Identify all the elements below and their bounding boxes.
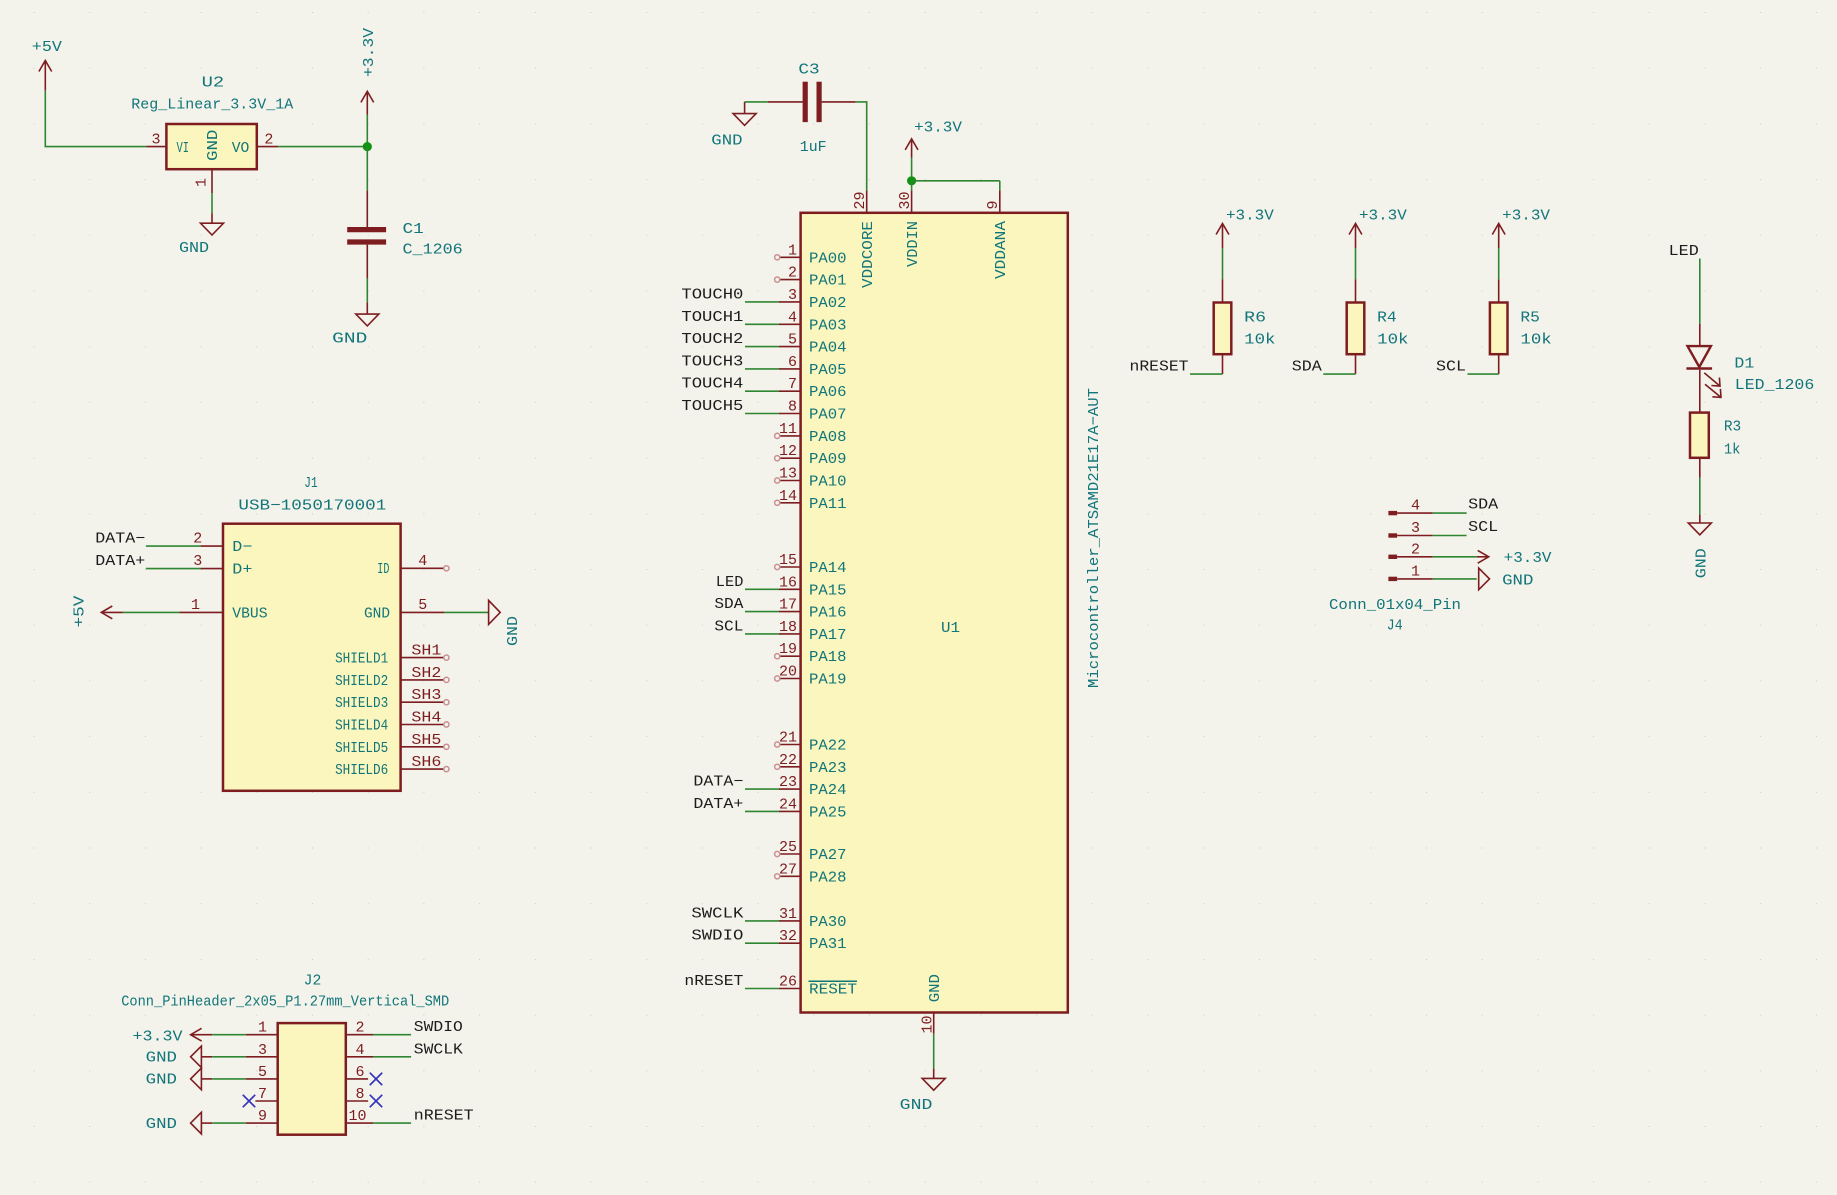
svg-text:SCL: SCL (714, 618, 743, 635)
svg-text:SH4: SH4 (411, 710, 441, 727)
svg-text:10k: 10k (1377, 331, 1408, 348)
svg-text:PA18: PA18 (809, 649, 847, 666)
svg-text:VDDCORE: VDDCORE (860, 221, 877, 288)
svg-text:PA08: PA08 (809, 429, 847, 446)
svg-text:R4: R4 (1377, 310, 1397, 327)
svg-text:17: 17 (779, 597, 797, 614)
svg-text:VI: VI (177, 140, 190, 157)
svg-text:PA17: PA17 (809, 627, 847, 644)
svg-text:SWDIO: SWDIO (414, 1019, 463, 1036)
svg-text:SH5: SH5 (411, 732, 441, 749)
svg-text:DATA+: DATA+ (95, 553, 145, 570)
svg-text:+3.3V: +3.3V (1359, 208, 1407, 225)
svg-text:29: 29 (852, 191, 869, 209)
svg-text:SWCLK: SWCLK (414, 1041, 463, 1058)
svg-text:GND: GND (364, 605, 390, 622)
svg-text:VDDANA: VDDANA (993, 221, 1010, 279)
svg-text:14: 14 (779, 488, 797, 505)
svg-text:GND: GND (332, 330, 367, 347)
svg-text:TOUCH2: TOUCH2 (681, 331, 743, 348)
svg-text:+3.3V: +3.3V (1502, 208, 1550, 225)
svg-text:2: 2 (193, 531, 202, 548)
svg-text:VDDIN: VDDIN (905, 221, 922, 267)
svg-text:SH3: SH3 (411, 687, 441, 704)
svg-text:LED: LED (1669, 243, 1699, 260)
svg-text:nRESET: nRESET (414, 1108, 474, 1125)
svg-text:PA02: PA02 (809, 295, 847, 312)
svg-text:D−: D− (232, 539, 252, 556)
svg-text:R5: R5 (1520, 310, 1540, 327)
svg-text:GND: GND (900, 1097, 933, 1114)
svg-text:R6: R6 (1244, 310, 1266, 327)
svg-text:1: 1 (788, 242, 797, 259)
svg-text:8: 8 (788, 399, 797, 416)
svg-text:GND: GND (505, 616, 522, 646)
svg-text:7: 7 (788, 376, 797, 393)
svg-text:ID: ID (377, 561, 389, 578)
svg-text:VBUS: VBUS (232, 605, 267, 622)
svg-text:TOUCH3: TOUCH3 (681, 353, 743, 370)
svg-text:23: 23 (779, 774, 797, 791)
svg-text:GND: GND (1502, 572, 1533, 589)
svg-text:nRESET: nRESET (1130, 359, 1189, 376)
svg-text:PA07: PA07 (809, 407, 847, 424)
svg-text:10k: 10k (1520, 331, 1551, 348)
svg-text:TOUCH0: TOUCH0 (681, 286, 743, 303)
svg-text:4: 4 (788, 309, 797, 326)
svg-text:10: 10 (919, 1015, 936, 1033)
svg-text:PA19: PA19 (809, 672, 847, 689)
svg-text:SH1: SH1 (411, 643, 441, 660)
svg-text:SHIELD5: SHIELD5 (335, 740, 388, 757)
svg-text:PA06: PA06 (809, 384, 847, 401)
svg-text:PA23: PA23 (809, 760, 847, 777)
svg-text:LED: LED (716, 574, 744, 591)
svg-text:nRESET: nRESET (684, 973, 743, 990)
svg-text:13: 13 (779, 466, 797, 483)
svg-text:2: 2 (356, 1020, 365, 1037)
svg-text:1: 1 (191, 597, 200, 614)
svg-text:J1: J1 (304, 475, 317, 492)
svg-text:1: 1 (258, 1020, 267, 1037)
svg-text:Microcontroller_ATSAMD21E17A−A: Microcontroller_ATSAMD21E17A−AUT (1086, 388, 1103, 688)
svg-text:SHIELD3: SHIELD3 (335, 695, 388, 712)
svg-text:PA14: PA14 (809, 560, 847, 577)
svg-text:32: 32 (779, 928, 797, 945)
svg-text:PA24: PA24 (809, 782, 847, 799)
svg-text:GND: GND (146, 1050, 177, 1067)
svg-text:31: 31 (779, 906, 797, 923)
svg-text:TOUCH5: TOUCH5 (681, 398, 743, 415)
svg-text:PA27: PA27 (809, 847, 847, 864)
svg-text:1: 1 (1411, 563, 1420, 580)
svg-text:Conn_PinHeader_2x05_P1.27mm_Ve: Conn_PinHeader_2x05_P1.27mm_Vertical_SMD (121, 994, 449, 1011)
svg-text:4: 4 (1411, 498, 1420, 515)
svg-text:SWCLK: SWCLK (691, 905, 743, 922)
svg-text:U1: U1 (941, 620, 960, 637)
svg-text:11: 11 (779, 421, 797, 438)
svg-text:3: 3 (1411, 520, 1420, 537)
svg-text:7: 7 (258, 1086, 267, 1103)
svg-text:3: 3 (193, 553, 202, 570)
svg-text:GND: GND (146, 1072, 177, 1089)
svg-text:SCL: SCL (1468, 519, 1498, 536)
svg-text:2: 2 (264, 132, 273, 149)
svg-text:+5V: +5V (72, 596, 89, 628)
svg-text:+3.3V: +3.3V (361, 28, 378, 77)
svg-text:SDA: SDA (1468, 497, 1498, 514)
svg-text:18: 18 (779, 619, 797, 636)
svg-text:SDA: SDA (1292, 359, 1322, 376)
svg-text:GND: GND (179, 240, 209, 257)
svg-text:4: 4 (356, 1042, 365, 1059)
svg-text:R3: R3 (1724, 419, 1741, 436)
svg-text:3: 3 (258, 1042, 267, 1059)
svg-text:PA10: PA10 (809, 474, 847, 491)
svg-text:PA15: PA15 (809, 582, 847, 599)
svg-text:6: 6 (356, 1064, 365, 1081)
svg-text:DATA−: DATA− (693, 774, 743, 791)
svg-text:12: 12 (779, 443, 797, 460)
svg-text:GND: GND (146, 1116, 177, 1133)
svg-text:U2: U2 (202, 74, 225, 91)
svg-text:PA03: PA03 (809, 317, 847, 334)
svg-text:4: 4 (418, 553, 427, 570)
svg-text:PA25: PA25 (809, 804, 847, 821)
svg-text:RESET: RESET (809, 982, 857, 999)
svg-text:C1: C1 (403, 221, 424, 238)
svg-text:5: 5 (788, 332, 797, 349)
svg-text:+3.3V: +3.3V (1226, 208, 1274, 225)
svg-text:TOUCH1: TOUCH1 (681, 309, 743, 326)
svg-text:GND: GND (205, 130, 222, 161)
svg-text:3: 3 (151, 132, 160, 149)
svg-text:20: 20 (779, 664, 797, 681)
svg-text:PA11: PA11 (809, 496, 847, 513)
svg-text:SH6: SH6 (411, 754, 441, 771)
svg-text:C_1206: C_1206 (403, 241, 463, 258)
svg-text:LED_1206: LED_1206 (1735, 377, 1815, 394)
svg-text:24: 24 (779, 796, 797, 813)
svg-text:PA16: PA16 (809, 605, 847, 622)
svg-text:9: 9 (258, 1108, 267, 1125)
svg-text:3: 3 (788, 287, 797, 304)
svg-text:15: 15 (779, 552, 797, 569)
svg-text:9: 9 (985, 200, 1002, 209)
svg-text:Conn_01x04_Pin: Conn_01x04_Pin (1329, 597, 1461, 614)
svg-text:SWDIO: SWDIO (691, 928, 743, 945)
svg-text:+5V: +5V (32, 39, 62, 56)
svg-text:SHIELD2: SHIELD2 (335, 673, 388, 690)
svg-text:1: 1 (194, 178, 211, 187)
svg-text:SHIELD1: SHIELD1 (335, 651, 388, 668)
svg-text:TOUCH4: TOUCH4 (681, 376, 743, 393)
svg-text:J4: J4 (1387, 618, 1403, 635)
svg-text:2: 2 (1411, 541, 1420, 558)
svg-text:VO: VO (232, 140, 250, 157)
svg-text:SDA: SDA (714, 596, 743, 613)
svg-text:PA31: PA31 (809, 936, 847, 953)
svg-text:GND: GND (711, 133, 742, 150)
svg-text:1uF: 1uF (800, 139, 827, 156)
svg-text:DATA+: DATA+ (693, 796, 743, 813)
svg-text:5: 5 (258, 1064, 267, 1081)
svg-text:25: 25 (779, 839, 797, 856)
svg-text:2: 2 (788, 265, 797, 282)
svg-text:SHIELD6: SHIELD6 (335, 762, 388, 779)
svg-text:PA09: PA09 (809, 451, 847, 468)
svg-text:SH2: SH2 (411, 665, 441, 682)
svg-text:27: 27 (779, 861, 797, 878)
svg-text:6: 6 (788, 354, 797, 371)
svg-text:PA00: PA00 (809, 250, 847, 267)
svg-text:PA01: PA01 (809, 273, 847, 290)
svg-text:21: 21 (779, 730, 797, 747)
svg-text:PA28: PA28 (809, 869, 847, 886)
svg-text:+3.3V: +3.3V (1504, 550, 1552, 567)
svg-text:+3.3V: +3.3V (133, 1029, 183, 1046)
svg-text:Reg_Linear_3.3V_1A: Reg_Linear_3.3V_1A (131, 97, 293, 114)
svg-text:USB−1050170001: USB−1050170001 (238, 497, 386, 514)
svg-text:+3.3V: +3.3V (914, 120, 962, 137)
svg-text:GND: GND (1694, 548, 1711, 578)
svg-text:GND: GND (927, 974, 944, 1002)
svg-text:DATA−: DATA− (95, 531, 145, 548)
svg-text:1k: 1k (1724, 442, 1741, 459)
svg-text:22: 22 (779, 752, 797, 769)
svg-text:10k: 10k (1244, 331, 1275, 348)
svg-text:26: 26 (779, 974, 797, 991)
svg-text:SCL: SCL (1436, 359, 1466, 376)
svg-text:PA04: PA04 (809, 340, 847, 357)
svg-text:SHIELD4: SHIELD4 (335, 718, 388, 735)
svg-text:10: 10 (349, 1108, 367, 1125)
svg-text:PA05: PA05 (809, 362, 847, 379)
svg-text:8: 8 (356, 1086, 365, 1103)
svg-text:19: 19 (779, 641, 797, 658)
svg-text:PA22: PA22 (809, 738, 847, 755)
svg-text:PA30: PA30 (809, 914, 847, 931)
svg-text:D1: D1 (1734, 356, 1754, 373)
svg-text:16: 16 (779, 574, 797, 591)
svg-text:30: 30 (897, 191, 914, 209)
svg-text:5: 5 (418, 597, 427, 614)
svg-text:D+: D+ (232, 562, 252, 579)
svg-text:C3: C3 (798, 61, 819, 78)
svg-text:J2: J2 (304, 972, 322, 989)
